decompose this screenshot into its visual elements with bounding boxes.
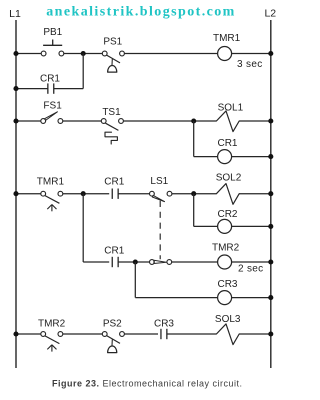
svg-text:SOL2: SOL2 xyxy=(216,172,242,183)
svg-text:TMR2: TMR2 xyxy=(212,243,240,254)
svg-text:PS2: PS2 xyxy=(103,319,122,330)
svg-text:Figure 23. Electromechanical r: Figure 23. Electromechanical relay circu… xyxy=(52,379,243,389)
svg-text:TMR2: TMR2 xyxy=(38,318,66,329)
svg-text:FS1: FS1 xyxy=(43,101,62,112)
svg-text:CR1: CR1 xyxy=(40,73,60,84)
svg-text:TMR1: TMR1 xyxy=(213,33,241,44)
svg-text:CR3: CR3 xyxy=(217,279,237,290)
svg-text:CR2: CR2 xyxy=(217,209,237,220)
svg-text:L1: L1 xyxy=(9,8,21,20)
svg-text:PB1: PB1 xyxy=(43,27,62,38)
svg-text:CR1: CR1 xyxy=(104,245,124,256)
svg-text:PS1: PS1 xyxy=(103,37,122,48)
svg-text:2 sec: 2 sec xyxy=(238,263,263,274)
svg-text:CR1: CR1 xyxy=(217,138,237,149)
svg-text:CR1: CR1 xyxy=(104,176,124,187)
svg-text:CR3: CR3 xyxy=(154,319,174,330)
svg-text:3 sec: 3 sec xyxy=(237,59,263,70)
svg-text:SOL3: SOL3 xyxy=(215,314,241,325)
svg-text:TS1: TS1 xyxy=(102,107,121,118)
svg-text:SOL1: SOL1 xyxy=(218,102,244,113)
svg-text:anekalistrik.blogspot.com: anekalistrik.blogspot.com xyxy=(46,5,236,20)
svg-text:L2: L2 xyxy=(264,8,276,20)
svg-text:LS1: LS1 xyxy=(150,176,168,187)
svg-text:TMR1: TMR1 xyxy=(37,176,65,187)
